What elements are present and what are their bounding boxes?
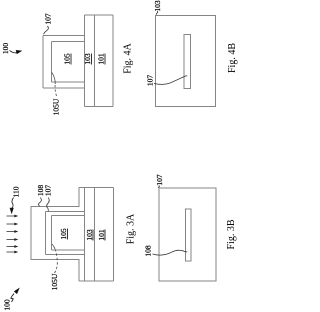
svg-text:101: 101 (97, 53, 106, 65)
svg-text:Fig. 3B: Fig. 3B (226, 219, 237, 249)
substrate 101/103 outline (Fig 3A) (79, 188, 114, 282)
label 107 with leader (Fig 3A) (44, 185, 53, 212)
svg-text:105U: 105U (52, 98, 61, 115)
label 107 with leader (Fig 4B) (146, 75, 188, 87)
label 103 (Fig 4A) (83, 53, 92, 65)
label 105U with dashed leader (Fig 3A) (50, 244, 59, 290)
svg-text:Fig. 3A: Fig. 3A (126, 213, 137, 244)
label 105 (Fig 4A) (63, 53, 72, 65)
layer boundary 103/101 (Fig 3A) (94, 188, 96, 282)
label 103 (Fig 3A) (85, 229, 94, 241)
svg-text:Fig. 4A: Fig. 4A (123, 42, 134, 73)
svg-text:110: 110 (12, 186, 21, 197)
stripe 108 plan view (Fig 3B) (186, 209, 192, 261)
svg-text:107: 107 (155, 174, 164, 186)
label 100 with arrow (Fig 4A) (1, 43, 22, 55)
svg-text:105U: 105U (50, 273, 59, 290)
label 107 with leader (Fig 3B) (155, 174, 164, 188)
svg-text:Fig. 4B: Fig. 4B (227, 43, 238, 73)
liner layer 107 (Fig 3A) (46, 212, 85, 255)
layer boundary 103/101 (Fig 4A) (94, 15, 96, 107)
svg-text:107: 107 (44, 13, 53, 25)
label 108 with leader (Fig 3A) (36, 185, 45, 207)
label 108 with leader (Fig 3B) (144, 245, 188, 257)
svg-text:107: 107 (146, 75, 155, 87)
svg-text:105: 105 (63, 53, 72, 65)
liner layer 107 (Fig 4A) (43, 87, 85, 89)
svg-text:103: 103 (85, 229, 94, 241)
svg-text:100: 100 (3, 299, 12, 311)
label 100 with arrow (Fig 3A) (3, 288, 20, 311)
capping layer 108 (Fig 3A) (31, 188, 79, 282)
label 101 (Fig 4A) (97, 53, 106, 65)
svg-text:100: 100 (1, 43, 10, 55)
label 101 (Fig 3A) (97, 229, 106, 241)
structure 105 (Fig 3A) (52, 216, 85, 251)
stripe 107 plan view (Fig 4B) (184, 35, 191, 89)
label 105U with dashed leader (Fig 4A) (52, 73, 61, 116)
label 110 with arrow leader (Fig 3A) (10, 186, 21, 214)
outline 107 plan view (Fig 3B) (159, 188, 216, 281)
structure 105 (Fig 4A) (52, 81, 85, 83)
svg-text:107: 107 (44, 185, 53, 197)
substrate 101/103 outline (Fig 4A) (85, 106, 114, 108)
svg-text:103: 103 (153, 0, 162, 12)
label 103 with leader (Fig 4B) (153, 0, 162, 15)
outline 103 plan view (Fig 4B) (156, 16, 216, 107)
svg-text:101: 101 (97, 229, 106, 241)
light arrows 110 (Fig 3A) (7, 215, 19, 254)
label 107 with leader (Fig 4A) (44, 13, 53, 34)
svg-text:108: 108 (144, 245, 153, 257)
svg-text:105: 105 (59, 228, 68, 240)
label 105 (Fig 3A) (59, 228, 68, 240)
svg-text:103: 103 (83, 53, 92, 65)
